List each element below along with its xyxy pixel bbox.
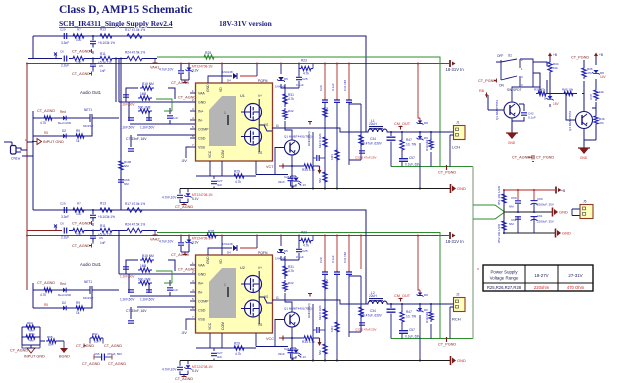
svg-text:CT_AGND: CT_AGND xyxy=(72,50,90,54)
IC U1 mosfet high xyxy=(241,104,262,121)
svg-text:C31 NM: C31 NM xyxy=(343,251,347,263)
wire blr frame xyxy=(22,327,64,348)
svg-text:C6: C6 xyxy=(60,222,64,226)
svg-text:COMP: COMP xyxy=(198,127,209,131)
svg-text:SW SPDT: SW SPDT xyxy=(507,88,522,92)
svg-text:D2: D2 xyxy=(62,129,66,133)
svg-text:+5.103k 1%: +5.103k 1% xyxy=(98,215,115,219)
svg-text:UVP: UVP xyxy=(589,94,593,100)
svg-text:*: * xyxy=(477,268,479,274)
svg-text:D4: D4 xyxy=(227,79,231,83)
svg-text:R11: R11 xyxy=(100,52,106,56)
diode D red ch2 xyxy=(58,282,72,297)
resistor R24 47.5k ch1 xyxy=(125,51,145,61)
wire input verticals xyxy=(115,58,122,211)
svg-text:R23: R23 xyxy=(301,231,307,235)
wire blue mid divider ch2 rail xyxy=(33,210,366,304)
svg-text:COMP: COMP xyxy=(198,299,209,303)
svg-text:CT_PGND: CT_PGND xyxy=(438,343,456,347)
capacitor C23 ch2 xyxy=(177,367,183,369)
resistor R35 47k xyxy=(534,88,548,96)
IC U2 mosfet low xyxy=(241,300,262,317)
svg-text:V+: V+ xyxy=(258,94,262,98)
svg-text:U2: U2 xyxy=(240,266,245,270)
junction VD rail ch1 xyxy=(221,63,300,65)
wire comp cluster ch2 xyxy=(119,231,196,319)
resistor R12 ch1 xyxy=(40,116,54,125)
svg-text:GND: GND xyxy=(206,256,210,264)
svg-text:1N4148: 1N4148 xyxy=(222,242,233,246)
svg-text:10, 7W: 10, 7W xyxy=(406,315,416,319)
svg-text:CT_AGND: CT_AGND xyxy=(72,222,90,226)
wire comp cluster ch1 xyxy=(119,59,196,147)
testpoint TP ch1 xyxy=(308,122,312,125)
wire c52 red tap xyxy=(360,235,362,270)
resistor R106 xyxy=(119,159,132,172)
net CT_AGND pin2 ch1 xyxy=(178,96,196,100)
label node I1 ch1 xyxy=(276,124,279,128)
capacitor C1b ch2 xyxy=(60,202,69,220)
label GNDPAD ch1 xyxy=(307,131,311,146)
svg-text:BGND: BGND xyxy=(59,355,70,359)
resistor R49 ch2 xyxy=(425,310,433,323)
svg-text:0.1uF, 63V: 0.1uF, 63V xyxy=(405,163,421,167)
label LCH ch1 xyxy=(452,145,460,150)
svg-text:GND: GND xyxy=(508,141,516,145)
svg-text:R25,R26,R27,R28: R25,R26,R27,R28 xyxy=(487,285,522,290)
net CT_AGND r62a xyxy=(76,338,94,348)
zener D5 ch2 xyxy=(275,249,288,261)
label MTZJ ch2 xyxy=(192,237,213,245)
wire uvp2 chain xyxy=(562,57,596,108)
diode D2 ch2 xyxy=(62,301,66,310)
svg-text:GND: GND xyxy=(562,231,571,236)
svg-text:10R: 10R xyxy=(94,340,100,344)
svg-text:UVP: UVP xyxy=(543,94,547,100)
svg-text:CT_AGND: CT_AGND xyxy=(512,156,530,160)
svg-text:1.2nF,50V: 1.2nF,50V xyxy=(140,298,155,302)
svg-text:Audio Out1: Audio Out1 xyxy=(80,90,102,95)
connector CN1 xyxy=(11,146,21,161)
net CT_AGND in ch1 xyxy=(37,109,55,113)
svg-text:C6: C6 xyxy=(60,50,64,54)
svg-text:I1: I1 xyxy=(276,296,279,300)
IC U2 die xyxy=(209,268,236,318)
capacitor C42 xyxy=(521,112,536,120)
svg-text:Audio Out1: Audio Out1 xyxy=(80,262,102,267)
wire switch out xyxy=(533,62,551,94)
svg-text:18V-31V version: 18V-31V version xyxy=(219,19,273,28)
svg-text:VAA: VAA xyxy=(198,263,205,267)
net CT_AGND input a ch1 xyxy=(72,49,93,54)
svg-text:100: 100 xyxy=(76,212,82,216)
svg-text:3.3V: 3.3V xyxy=(192,69,199,73)
capacitor C31 ch2 xyxy=(343,251,352,274)
svg-text:OFF: OFF xyxy=(497,54,503,58)
net VCT ch1 xyxy=(266,164,283,170)
svg-text:VSS: VSS xyxy=(198,145,206,149)
capacitor C37 ch2 xyxy=(399,328,421,339)
svg-text:100: 100 xyxy=(76,61,82,65)
svg-text:J1: J1 xyxy=(456,121,460,125)
IC U2 top pins xyxy=(206,256,223,264)
svg-text:1M4: 1M4 xyxy=(330,154,334,160)
resistor RN5 ch1 xyxy=(359,133,365,147)
svg-text:Class D, AMP15 Schematic: Class D, AMP15 Schematic xyxy=(59,4,193,16)
wire green feedback rail ch1 xyxy=(157,57,473,167)
svg-text:CT_AGND: CT_AGND xyxy=(72,72,90,76)
diode D9 ch1 xyxy=(417,121,429,126)
resistor RN1 ch2 xyxy=(323,278,329,291)
ground BGND blr xyxy=(59,341,70,359)
capacitor C65 xyxy=(94,352,122,361)
svg-text:NM: NM xyxy=(509,205,514,209)
svg-text:33nF: 33nF xyxy=(278,352,285,356)
resistor RN2 ch2 xyxy=(318,305,327,321)
svg-text:GND: GND xyxy=(457,358,466,363)
svg-text:3.3nF: 3.3nF xyxy=(61,215,69,219)
wire column red taps ch2 xyxy=(324,235,350,272)
IC U1 mosfet low xyxy=(241,128,262,145)
svg-text:CT_PGND: CT_PGND xyxy=(536,156,554,160)
wire left trunk x33 xyxy=(32,136,34,210)
svg-text:R19 NM: R19 NM xyxy=(142,254,154,258)
wire red tap D9 ch1 xyxy=(417,63,420,121)
wire columns ch2 xyxy=(313,271,361,361)
resistor R7b ch1 xyxy=(71,28,86,43)
capacitor C28 ch1 xyxy=(313,155,325,161)
label R5 ch2 xyxy=(44,303,48,307)
svg-text:1nF: 1nF xyxy=(100,241,106,245)
svg-text:CT_AGND: CT_AGND xyxy=(175,377,193,381)
capacitor C5b ch2 xyxy=(90,209,96,222)
svg-text:R26: R26 xyxy=(208,230,214,234)
svg-text:NM: NM xyxy=(325,107,329,112)
capacitor C34 ch1 xyxy=(363,137,396,146)
svg-text:4.7uF,10V: 4.7uF,10V xyxy=(159,68,174,72)
resistor R32 ch1 xyxy=(283,108,294,120)
svg-text:0.47uF, 630V: 0.47uF, 630V xyxy=(363,314,383,318)
label pin1 CN1 xyxy=(25,138,27,142)
svg-text:1.2nF,50V: 1.2nF,50V xyxy=(120,275,135,279)
label +B hp xyxy=(561,189,566,193)
wire U1 output stage ch1 xyxy=(259,99,272,152)
svg-text:V+: V+ xyxy=(258,266,262,270)
svg-text:0.1uF: 0.1uF xyxy=(331,255,335,263)
svg-text:R64: R64 xyxy=(29,332,35,336)
net CT_AGND below ch2 xyxy=(175,377,193,382)
svg-text:D6: D6 xyxy=(424,136,428,140)
diode D4 boot ch2 xyxy=(222,242,237,255)
wire VSS ch2 xyxy=(186,319,190,330)
svg-text:47k: 47k xyxy=(587,71,592,75)
resistor RN2 ch1 xyxy=(318,133,327,149)
capacitor C29 ch1 xyxy=(319,85,328,102)
power +B d8 xyxy=(594,53,603,58)
label -5V ch1 xyxy=(181,159,187,163)
svg-text:0.1uF, 63V: 0.1uF, 63V xyxy=(405,335,421,339)
svg-text:R5: R5 xyxy=(44,303,48,307)
connector J5 xyxy=(580,200,593,219)
svg-text:R17 47.5k 1%: R17 47.5k 1% xyxy=(125,202,145,206)
svg-text:NM: NM xyxy=(325,279,329,284)
diode D2 ch1 xyxy=(62,129,66,138)
svg-text:D8: D8 xyxy=(424,293,428,297)
svg-text:PQFN: PQFN xyxy=(258,251,268,255)
svg-text:R35 47k: R35 47k xyxy=(534,88,546,92)
svg-text:R9: R9 xyxy=(76,301,80,305)
label C23 value ch2 xyxy=(162,368,177,372)
svg-text:R47: R47 xyxy=(406,138,412,142)
net VAA2 xyxy=(150,231,159,242)
svg-text:2.2uF: 2.2uF xyxy=(61,236,69,240)
svg-text:1.1V: 1.1V xyxy=(300,183,306,187)
wire input stage ch2 xyxy=(33,283,119,308)
zener D7z ch1 xyxy=(184,193,213,201)
capacitor C66 xyxy=(118,178,130,186)
svg-text:220ohm: 220ohm xyxy=(534,285,550,290)
svg-text:VS: VS xyxy=(264,295,268,299)
capacitor C32 ch2 xyxy=(355,323,377,332)
ground GND hp mid xyxy=(553,208,569,217)
resistor RN5 ch2 xyxy=(359,305,365,319)
svg-text:100: 100 xyxy=(76,38,82,42)
svg-text:C65: C65 xyxy=(94,352,100,356)
net VCC Q3 xyxy=(479,89,488,98)
svg-text:C34: C34 xyxy=(370,137,376,141)
svg-text:1k: 1k xyxy=(76,139,80,143)
svg-text:R32: R32 xyxy=(288,109,294,113)
svg-text:14V: 14V xyxy=(600,75,607,79)
svg-text:GND(PAD): GND(PAD) xyxy=(307,131,311,146)
resistor RN3 ch2 xyxy=(330,320,339,334)
label V+ VS ch1 xyxy=(258,94,268,155)
transistor input fet ch1 xyxy=(83,108,97,128)
svg-text:0.1uF: 0.1uF xyxy=(296,83,304,87)
svg-text:10k: 10k xyxy=(599,90,604,94)
svg-text:4.7nF,10V: 4.7nF,10V xyxy=(162,368,177,372)
label MTZJ ch1 xyxy=(192,65,213,73)
resistor R20 ch2 xyxy=(138,264,152,272)
svg-text:+B: +B xyxy=(599,53,603,57)
capacitor C25 ch2 xyxy=(296,249,308,259)
svg-text:1N4148: 1N4148 xyxy=(222,70,233,74)
wire blue top rail ch1 xyxy=(33,36,366,132)
svg-text:Red: Red xyxy=(60,282,66,286)
label C21 value ch1 xyxy=(159,68,174,72)
svg-text:R62: R62 xyxy=(92,332,98,336)
svg-text:47k: 47k xyxy=(599,121,604,125)
svg-text:4.7k: 4.7k xyxy=(288,269,294,273)
svg-text:1M4: 1M4 xyxy=(330,326,334,332)
wire zener cluster ch1 xyxy=(180,189,188,205)
svg-text:S1: S1 xyxy=(508,54,512,58)
label 500_1M8 ch1 xyxy=(138,106,151,110)
wire green taps to node xyxy=(473,205,504,219)
svg-text:0.47uF, 630V: 0.47uF, 630V xyxy=(363,142,383,146)
ground GND ch2 xyxy=(451,356,467,365)
resistor R51 xyxy=(497,186,506,205)
svg-text:GND: GND xyxy=(206,84,210,92)
svg-text:470 Ohm: 470 Ohm xyxy=(567,285,585,290)
resistor R64 xyxy=(24,332,37,343)
svg-text:R23: R23 xyxy=(301,59,307,63)
junction VD rail ch2 xyxy=(221,235,300,237)
label GNDPAD ch2 xyxy=(307,303,311,318)
wire VSS ch1 xyxy=(186,147,190,158)
label C23 value ch1 xyxy=(162,196,177,200)
svg-text:CT_AGND: CT_AGND xyxy=(104,344,122,348)
svg-text:CT_PGND: CT_PGND xyxy=(438,171,456,175)
resistor R33 ch1 xyxy=(302,164,315,172)
svg-text:COM: COM xyxy=(221,150,225,158)
svg-text:IN+: IN+ xyxy=(198,281,204,285)
wire ground rail ch2 xyxy=(180,360,450,362)
net CT_AGND zener ch1 xyxy=(171,80,189,85)
IC U2 ref label xyxy=(240,266,245,270)
net CT_AGND in ch2 xyxy=(37,281,55,285)
svg-text:COM: COM xyxy=(221,322,225,330)
svg-text:MC2SP: MC2SP xyxy=(83,124,93,128)
svg-text:VAA: VAA xyxy=(198,91,205,95)
capacitor C9 ch2 xyxy=(120,290,135,302)
svg-text:C29: C29 xyxy=(319,85,323,91)
svg-text:10R: 10R xyxy=(48,343,54,347)
svg-text:INPUT GND: INPUT GND xyxy=(43,140,64,144)
svg-text:VCC: VCC xyxy=(208,322,212,330)
capacitor C31 ch1 xyxy=(343,79,352,102)
svg-text:1nF: 1nF xyxy=(100,69,106,73)
capacitor C29 ch2 xyxy=(319,257,328,274)
capacitor C8 ch2 xyxy=(120,267,135,279)
resistor R3 boot ch2 xyxy=(299,231,313,248)
label LCH ch2 xyxy=(452,317,461,322)
svg-text:PQFN: PQFN xyxy=(258,79,268,83)
net CT_AGND CT_PGND bridge xyxy=(512,155,554,162)
capacitor C37 ch1 xyxy=(399,156,421,167)
svg-text:C25: C25 xyxy=(302,249,308,253)
capacitor C23 ch1 xyxy=(177,195,183,197)
svg-text:22uH: 22uH xyxy=(369,294,377,298)
svg-text:15V: 15V xyxy=(553,102,560,106)
op-amp IC U2 IR4311 body xyxy=(196,255,273,333)
diode D red ch1 xyxy=(58,110,72,125)
wire vct line ch2 xyxy=(283,337,320,339)
net CT_AGND zener ch2 xyxy=(171,252,189,257)
svg-text:R19 NM: R19 NM xyxy=(142,82,154,86)
wire hp node xyxy=(504,190,580,233)
svg-text:VS: VS xyxy=(264,123,268,127)
transistor Q1 ch2 xyxy=(284,307,312,328)
IC U1 bottom pins xyxy=(208,150,225,158)
capacitor C28 ch2 xyxy=(313,327,325,333)
svg-text:R24 47.5k 1%: R24 47.5k 1% xyxy=(125,223,145,227)
capacitor C26 zener ch1 xyxy=(278,175,306,189)
transistor Q1 ch1 xyxy=(284,135,312,156)
svg-text:470uF, 50V: 470uF, 50V xyxy=(107,352,122,356)
diode D10 ch2 xyxy=(417,308,429,312)
wire green comp a ch1 xyxy=(156,99,172,111)
capacitor C5 ch2 xyxy=(90,230,106,246)
svg-text:1M8: 1M8 xyxy=(140,264,146,268)
resistor R22 ch2 xyxy=(138,281,152,285)
capacitor C5 ch1 xyxy=(90,58,106,74)
capacitor C8 ch1 xyxy=(120,95,135,107)
net CT_PGND tap ch2 xyxy=(438,337,456,347)
svg-text:100: 100 xyxy=(76,233,82,237)
svg-text:CN1w: CN1w xyxy=(11,157,21,161)
resistor R47 ch1 xyxy=(400,138,416,152)
svg-text:Red GND: Red GND xyxy=(58,121,72,125)
svg-text:0.1uF: 0.1uF xyxy=(296,255,304,259)
resistor R23 ch1 xyxy=(202,51,216,59)
ground INPUT GND ch1 xyxy=(32,139,64,145)
resistor R31 ch2 xyxy=(283,264,295,278)
IC U1 die xyxy=(209,96,236,146)
resistor R45 10k xyxy=(562,88,575,96)
wire output ch1 xyxy=(272,128,450,189)
capacitor C27 ch1 xyxy=(211,179,223,187)
connector J2 ch2 xyxy=(454,293,466,312)
svg-text:33nF: 33nF xyxy=(278,180,285,184)
transistor Q4 xyxy=(568,110,593,131)
capacitor C26 zener ch2 xyxy=(278,347,306,361)
zener D3 ch1 xyxy=(181,63,193,81)
wire column red taps ch1 xyxy=(324,63,350,100)
svg-text:-5V: -5V xyxy=(181,331,187,335)
resistor R7b ch2 xyxy=(71,202,86,217)
svg-text:D8: D8 xyxy=(424,121,428,125)
svg-text:C29: C29 xyxy=(60,202,66,206)
net CT_AGND input a ch2 xyxy=(72,221,93,226)
net CT_AGND blr xyxy=(10,349,28,353)
resistor R20 ch1 xyxy=(138,92,152,100)
wire uvp node xyxy=(512,87,562,107)
svg-text:R45 10k: R45 10k xyxy=(562,88,574,92)
IC U1 top pins xyxy=(206,84,223,92)
svg-text:D5: D5 xyxy=(284,77,288,81)
svg-text:NM: NM xyxy=(509,222,514,226)
svg-text:1k: 1k xyxy=(76,311,80,315)
wire connector gnd ch2 xyxy=(450,304,454,339)
subtitle SCH_IR4311 xyxy=(59,19,173,28)
svg-text:R49 NM: R49 NM xyxy=(425,139,429,151)
label Audio Out ch2 xyxy=(80,262,102,267)
svg-text:VCT: VCT xyxy=(266,165,274,169)
power VCC down ch1 xyxy=(318,166,322,174)
wire audio input ch1 xyxy=(28,36,157,59)
svg-text:RCH: RCH xyxy=(452,317,461,322)
svg-text:Red GND: Red GND xyxy=(58,293,72,297)
resistor R34 10k xyxy=(548,57,559,94)
svg-text:1: 1 xyxy=(224,111,226,115)
resistor R47 ch2 xyxy=(400,310,416,324)
svg-text:GND: GND xyxy=(457,186,466,191)
svg-text:CT_AGND: CT_AGND xyxy=(72,244,90,248)
inductor L1 xyxy=(366,119,389,132)
ground GND Q3 xyxy=(506,133,518,145)
label -5V ch2 xyxy=(181,331,187,335)
svg-text:R13: R13 xyxy=(100,202,106,206)
svg-text:CM_OUT: CM_OUT xyxy=(394,122,411,126)
capacitor C10 ch1 xyxy=(140,118,155,130)
zener D7z ch2 xyxy=(184,365,213,373)
label PQFN ch2 xyxy=(258,251,268,255)
capacitor C60 2200uF xyxy=(531,197,554,207)
wire CN1 stubs xyxy=(4,136,33,156)
capacitor C7 ch2 xyxy=(126,309,147,323)
resistor R3 boot ch1 xyxy=(299,59,313,76)
